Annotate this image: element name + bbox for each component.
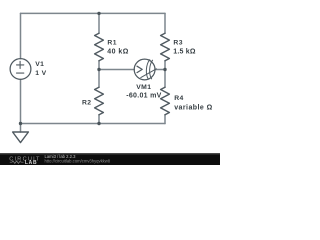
svg-text:htto://circuitlab.com/cmv3hyqv: htto://circuitlab.com/cmv3hyqvkkw8: [45, 159, 111, 164]
node: bottom rail / V1-ground junction: [19, 122, 22, 125]
voltmeter VM1: [134, 59, 156, 80]
wire: mid rail left (R1/R2 node to VM1): [99, 69, 134, 71]
resistor R4 body: [161, 87, 170, 115]
wire: bottom rail horizontal: [21, 123, 166, 125]
wire: R3 top lead: [164, 13, 166, 33]
resistor R2 body: [95, 87, 104, 115]
CircuitLab logo: [9, 156, 40, 166]
wire: R1 bottom lead: [98, 61, 100, 70]
svg-text:V1: V1: [35, 61, 44, 68]
wire: V1 top lead up to top rail: [20, 13, 22, 58]
wire: R4 top lead: [164, 70, 166, 88]
wire: R2 top lead: [98, 70, 100, 88]
svg-text:1 V: 1 V: [35, 70, 46, 77]
svg-text:LAB: LAB: [25, 160, 37, 165]
label V1 / 1 V: [35, 61, 46, 77]
svg-text:-60.01 mV: -60.01 mV: [126, 92, 161, 99]
wire: top rail horizontal: [21, 12, 166, 14]
node: mid rail / R3-R4 junction: [163, 68, 166, 71]
svg-text:variable Ω: variable Ω: [174, 104, 213, 111]
footer watermark bar: [0, 153, 220, 166]
label VM1 / -60.01 mV: [126, 84, 161, 100]
wire: R1 top lead: [98, 13, 100, 33]
svg-text:R1: R1: [107, 40, 117, 47]
svg-text:40 kΩ: 40 kΩ: [107, 48, 129, 55]
label R3 / 1.5 kΩ: [173, 40, 196, 56]
wire: ground stub: [20, 124, 22, 133]
svg-text:VM1: VM1: [136, 84, 151, 91]
node: bottom rail / R2 junction: [97, 122, 100, 125]
wire: R4 bottom lead: [164, 115, 166, 124]
resistor R1 body: [95, 33, 104, 61]
wire: mid rail right (VM1 to R3/R4 node): [155, 69, 165, 71]
label R1 / 40 kΩ: [107, 40, 129, 56]
wire: V1 bottom lead: [20, 79, 22, 123]
svg-text:R3: R3: [173, 40, 183, 47]
resistor R3 body: [161, 33, 170, 61]
ground: [13, 132, 29, 143]
svg-text:R4: R4: [174, 95, 184, 102]
wire: R3 bottom lead: [164, 61, 166, 70]
svg-text:R2: R2: [82, 99, 92, 106]
footer text lines: [45, 154, 111, 164]
svg-text:1.5 kΩ: 1.5 kΩ: [173, 48, 196, 55]
voltage source V1: [10, 59, 31, 80]
label R4 / variable Ω: [174, 95, 213, 111]
wire: R2 bottom lead: [98, 115, 100, 124]
node: mid rail / R1-R2 junction: [97, 68, 100, 71]
node: top rail / R1 junction: [97, 12, 100, 15]
